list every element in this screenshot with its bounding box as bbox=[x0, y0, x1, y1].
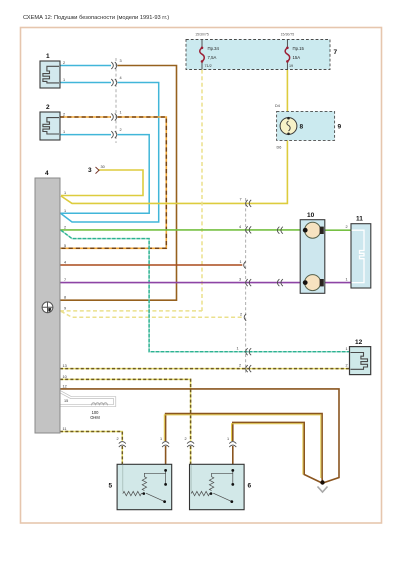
wire: pin 9 diagonal branch dashed pale to end hook bbox=[61, 311, 243, 317]
svg-text:12: 12 bbox=[63, 384, 67, 388]
connector on green x245 bbox=[246, 226, 252, 233]
wire: pale yellow dashed from fuse Pr.34 down to pin 9 bus bbox=[201, 63, 203, 311]
svg-text:Пр.15: Пр.15 bbox=[293, 46, 305, 51]
svg-text:1: 1 bbox=[346, 347, 348, 351]
svg-text:1: 1 bbox=[63, 130, 65, 134]
svg-text:9: 9 bbox=[64, 306, 66, 310]
sensor bulb top bbox=[305, 222, 321, 238]
component 1 bbox=[40, 61, 60, 88]
svg-text:D6: D6 bbox=[277, 146, 282, 150]
airbag 6 bbox=[190, 464, 245, 509]
svg-text:19: 19 bbox=[289, 64, 293, 68]
connector teal x245 bbox=[246, 348, 252, 355]
wire: pin 4 rust wire to end hook bbox=[60, 264, 242, 266]
svg-text:7: 7 bbox=[64, 278, 66, 282]
connector on purple x245 bbox=[246, 279, 252, 286]
wire: pin 10 dashed down to airbag 6 connector 2 bbox=[60, 379, 191, 441]
wire: yellow bus pin1 unit4 to lamp 8 bottom bbox=[61, 135, 287, 204]
svg-text:15: 15 bbox=[64, 399, 68, 403]
connector airbag5 pin2 vertical bbox=[119, 442, 126, 448]
airbag 5 internals bbox=[123, 465, 166, 502]
svg-text:D4: D4 bbox=[275, 104, 280, 108]
svg-text:12: 12 bbox=[355, 339, 363, 346]
svg-text:3: 3 bbox=[239, 278, 241, 282]
svg-text:15/30/75: 15/30/75 bbox=[281, 33, 295, 37]
warning lamp 8 bbox=[280, 118, 297, 135]
connector airbag6 pin2 vertical bbox=[187, 442, 194, 448]
svg-text:2: 2 bbox=[346, 364, 348, 368]
fuse box 7 bbox=[186, 40, 330, 70]
svg-text:5: 5 bbox=[109, 483, 113, 490]
wire: pin 13 dashed to connector 12 pin 2 bbox=[60, 368, 350, 370]
svg-text:2: 2 bbox=[120, 128, 122, 132]
wire: green pin 2 to sensor 10 top bulb bbox=[60, 229, 303, 231]
wire: purple pin 7 to sensor 10 bottom bulb bbox=[60, 282, 303, 284]
svg-text:8: 8 bbox=[300, 124, 304, 131]
wire: comp1 pin1 cyan to connector bbox=[60, 82, 111, 84]
connector pair comp2 pin2 bbox=[111, 114, 117, 121]
end hook pin 4 bbox=[244, 262, 246, 269]
svg-text:1: 1 bbox=[240, 260, 242, 264]
svg-text:СХЕМА 12: Подушки безопасности: СХЕМА 12: Подушки безопасности (модели 1… bbox=[23, 15, 169, 21]
wire: purple sensor 10 to unit 11 bbox=[322, 282, 352, 284]
svg-text:2: 2 bbox=[117, 437, 119, 441]
svg-text:1: 1 bbox=[160, 437, 162, 441]
svg-text:30: 30 bbox=[101, 165, 105, 169]
svg-text:2: 2 bbox=[64, 225, 66, 229]
ground junction bbox=[320, 480, 324, 484]
unit 11 bbox=[351, 224, 371, 288]
wire: comp2 pin2 dashed orange to connector bbox=[60, 116, 111, 118]
svg-text:10: 10 bbox=[63, 375, 67, 379]
warning lamp box 9 bbox=[277, 111, 335, 140]
svg-text:1: 1 bbox=[64, 191, 66, 195]
svg-text:1: 1 bbox=[346, 278, 348, 282]
end hook pin 9 bbox=[244, 314, 246, 321]
svg-text:4: 4 bbox=[120, 76, 122, 80]
connector 12 bbox=[350, 347, 371, 375]
ground symbol bbox=[318, 487, 328, 493]
svg-text:ОНМ: ОНМ bbox=[90, 415, 100, 420]
connector on purple x280 bbox=[277, 279, 283, 286]
svg-text:3: 3 bbox=[88, 167, 92, 174]
dashed connector boundary line left bbox=[115, 58, 117, 143]
control unit 4 bbox=[35, 178, 60, 433]
svg-text:2: 2 bbox=[239, 364, 241, 368]
svg-text:7: 7 bbox=[334, 49, 338, 56]
svg-text:1: 1 bbox=[120, 111, 122, 115]
connector pair comp1 pin2 bbox=[111, 62, 117, 69]
dashed connector boundary line middle bbox=[245, 198, 247, 373]
svg-text:9: 9 bbox=[338, 124, 342, 131]
wire: comp1 pin2 cyan to connector bbox=[60, 65, 111, 67]
border frame bbox=[21, 28, 382, 524]
svg-text:1: 1 bbox=[64, 209, 66, 213]
svg-text:4: 4 bbox=[64, 261, 66, 265]
svg-text:11: 11 bbox=[63, 427, 67, 431]
resistor 100 Ohm coil bbox=[92, 403, 108, 406]
svg-text:1: 1 bbox=[227, 437, 229, 441]
wire: comp2 pin1 cyan to connector bbox=[60, 134, 111, 136]
svg-text:1: 1 bbox=[46, 53, 50, 60]
wire: brown from connector 3 right, down, to pin 8 of unit 4 bbox=[60, 66, 177, 301]
svg-text:15А: 15А bbox=[293, 55, 301, 60]
svg-text:4: 4 bbox=[239, 225, 241, 229]
svg-text:2: 2 bbox=[185, 437, 187, 441]
connector pin13 x245 bbox=[246, 365, 252, 372]
wire: dashed orange from connector 1 right, down to pin 5 of unit 4 bbox=[60, 117, 166, 248]
wire: cyan from connector 2 right, down to pin of unit 4 bbox=[60, 135, 149, 214]
airbag 6 internals bbox=[191, 465, 233, 502]
airbag 5 bbox=[117, 464, 172, 509]
fuse Pr.34 bbox=[195, 33, 219, 70]
svg-text:6: 6 bbox=[248, 483, 252, 490]
wire: cyan from connector 4 right, down, to pin of unit 4 via diagonal bbox=[61, 83, 159, 223]
impact sensor unit 10 bbox=[300, 220, 325, 294]
svg-text:10: 10 bbox=[307, 212, 315, 219]
svg-text:2: 2 bbox=[63, 61, 65, 65]
svg-text:8: 8 bbox=[64, 296, 66, 300]
svg-text:11: 11 bbox=[356, 216, 363, 223]
connector pair comp1 pin1 bbox=[111, 79, 117, 86]
svg-text:7,5А: 7,5А bbox=[208, 55, 217, 60]
connector airbag6 pin1 vertical bbox=[229, 442, 236, 448]
wire: teal dashed branch from pin 2 down to connector 12 bbox=[61, 230, 350, 351]
wire: yellow lamp top to fuse Pr.15 bbox=[286, 62, 288, 117]
wire: resistor loop pin 15 gray bbox=[60, 392, 115, 406]
fuse Pr.15 bbox=[281, 33, 305, 70]
svg-text:13: 13 bbox=[63, 364, 67, 368]
wire: pin 9 direct dashed pale bbox=[60, 310, 202, 312]
sensor bulb bottom bbox=[305, 275, 321, 291]
wire: airbag 6 pin 1 brown/yellow to ground bbox=[232, 446, 234, 464]
component 2 bbox=[40, 112, 60, 140]
wire: airbag 5 pin 1 brown/yellow to ground bbox=[165, 446, 167, 464]
wire: pin 12 brown to ground bbox=[60, 389, 339, 483]
svg-text:4: 4 bbox=[45, 170, 49, 177]
connector airbag5 pin1 vertical bbox=[162, 442, 169, 448]
svg-text:7: 7 bbox=[240, 197, 242, 201]
svg-text:1: 1 bbox=[63, 78, 65, 82]
wire: pin 11 dashed down to airbag 5 connector 2 bbox=[60, 432, 122, 442]
wire: green sensor 10 to unit 11 bbox=[322, 229, 352, 231]
connector arcs group bbox=[111, 62, 283, 447]
svg-text:2: 2 bbox=[346, 225, 348, 229]
svg-text:Пр.34: Пр.34 bbox=[208, 46, 220, 51]
internal ground circle symbol bbox=[42, 302, 53, 313]
svg-text:71/2: 71/2 bbox=[205, 64, 212, 68]
svg-text:3: 3 bbox=[120, 59, 122, 63]
connector pair comp2 pin1 bbox=[111, 131, 117, 138]
svg-text:2: 2 bbox=[46, 104, 50, 111]
wire: yellow loop from terminal 30 (item 3) to pin 1 of unit 4 bbox=[61, 170, 143, 196]
connector on yellow bus x245 bbox=[246, 200, 252, 207]
svg-text:5: 5 bbox=[64, 244, 66, 248]
wires layer bbox=[60, 62, 351, 483]
connector on green x280 bbox=[277, 227, 283, 234]
svg-text:2: 2 bbox=[240, 312, 242, 316]
svg-text:1: 1 bbox=[237, 347, 239, 351]
svg-text:2: 2 bbox=[63, 113, 65, 117]
svg-text:15/30/75: 15/30/75 bbox=[195, 33, 209, 37]
